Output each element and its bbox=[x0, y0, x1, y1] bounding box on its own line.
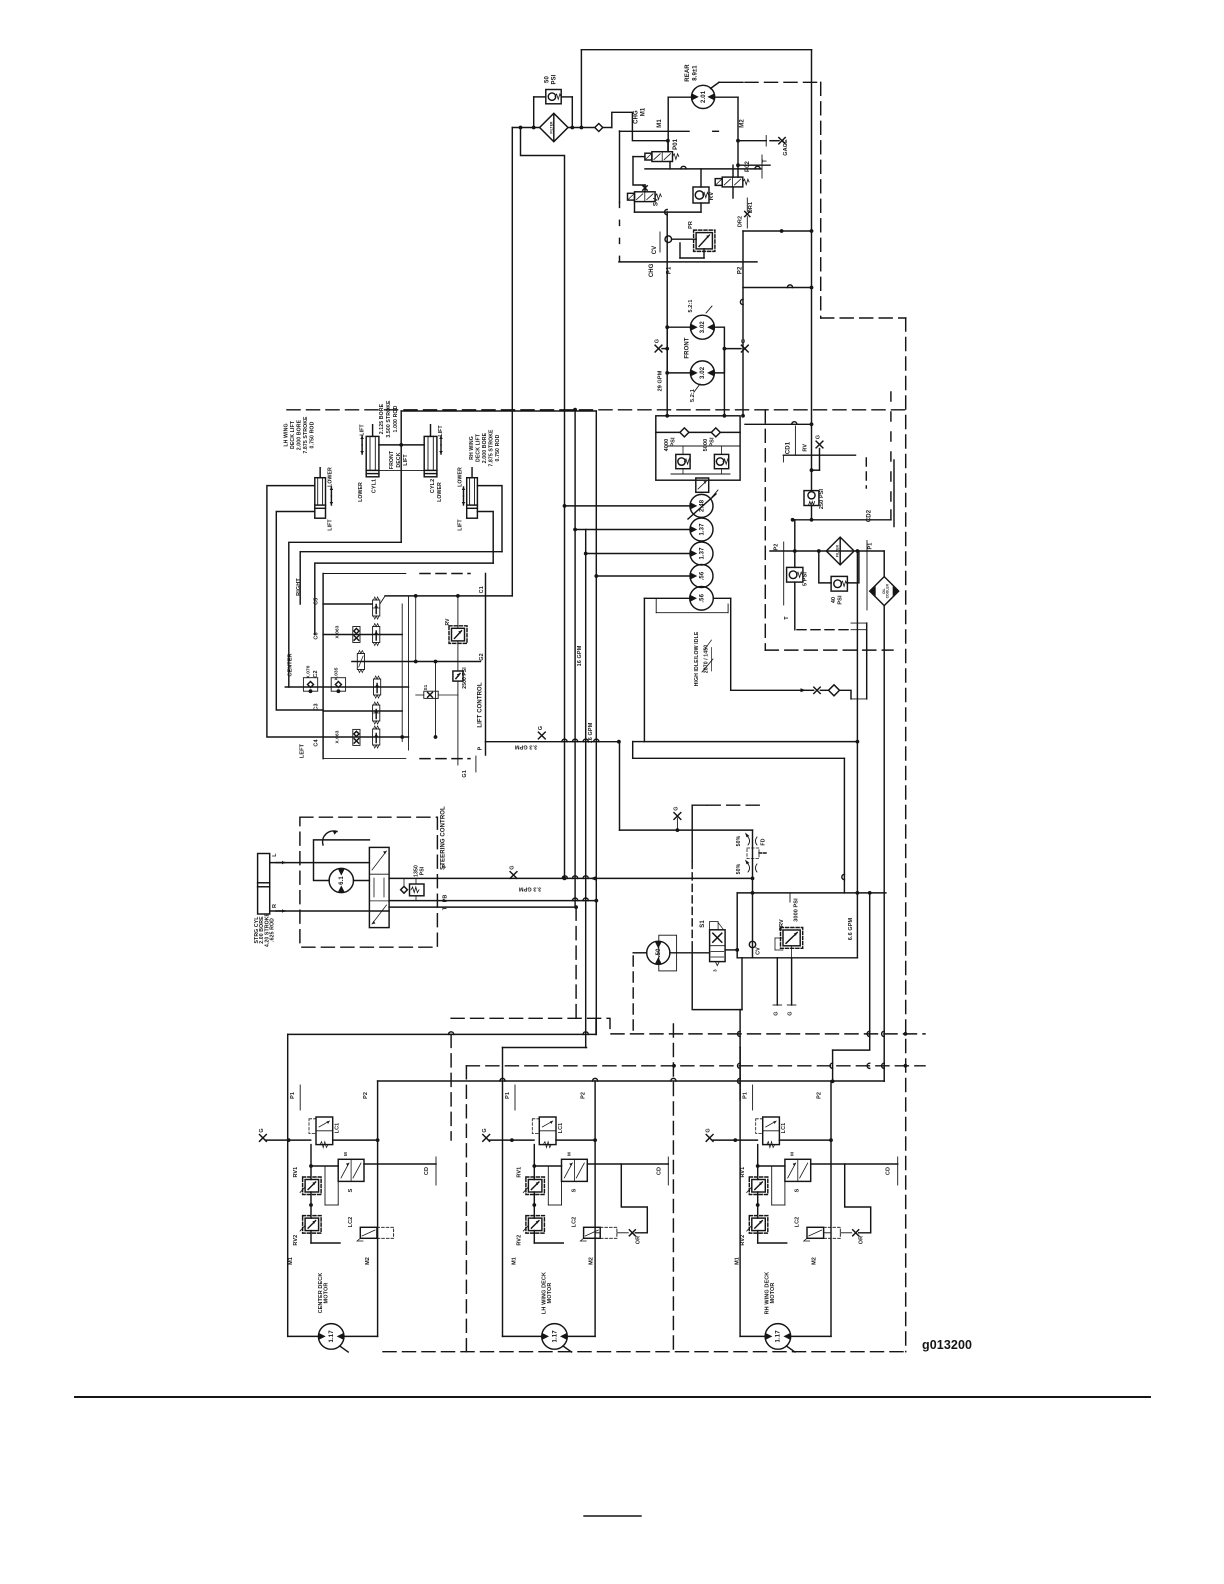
wire pump 1.37a output bbox=[575, 529, 690, 531]
svg-text:3.3 GPM: 3.3 GPM bbox=[514, 744, 537, 750]
svg-text:LIFT: LIFT bbox=[328, 519, 334, 531]
port T bracket bbox=[761, 155, 763, 178]
wire filter inlet bbox=[512, 127, 539, 129]
pump .56 lower bbox=[690, 587, 714, 611]
dashed bottom boundary bbox=[383, 1351, 906, 1353]
wire pump .56b left bbox=[644, 597, 690, 599]
wire CD RH WING DECK bbox=[811, 1163, 898, 1165]
gage test port bbox=[779, 138, 785, 144]
T bracket vertical bbox=[866, 623, 868, 699]
svg-text:PSI: PSI bbox=[420, 866, 426, 875]
3000 bracket tick bbox=[789, 893, 791, 902]
lift valve S2 bbox=[373, 729, 380, 745]
wire branch to right rail bbox=[743, 230, 812, 232]
wire P1 line down bbox=[619, 131, 621, 202]
valve P01 bbox=[652, 152, 673, 162]
relief RV2 RH WING DECK bbox=[752, 1218, 766, 1231]
motor 1.17 LH WING DECK bbox=[542, 1324, 568, 1350]
wire rail to CO2 line bbox=[811, 506, 813, 520]
svg-text:C5: C5 bbox=[314, 598, 320, 605]
svg-text:P2: P2 bbox=[774, 544, 780, 551]
steering valve bbox=[369, 847, 389, 927]
wire 40 PSI bypass right bbox=[847, 551, 859, 583]
svg-text:P1: P1 bbox=[868, 543, 874, 550]
dashed main right border bbox=[905, 318, 907, 1352]
dashed enclosure right upper bbox=[820, 82, 822, 318]
test port G steering P bbox=[510, 872, 517, 879]
svg-text:STEERING CONTROL: STEERING CONTROL bbox=[441, 806, 447, 870]
wire valve column RH WING DECK bbox=[757, 1145, 759, 1180]
wire G line LH WING DECK bbox=[490, 1139, 534, 1141]
svg-text:CENTER: CENTER bbox=[288, 653, 294, 676]
orifice OR LH WING DECK bbox=[629, 1230, 635, 1236]
svg-text:M1: M1 bbox=[641, 107, 647, 116]
svg-text:LIFT: LIFT bbox=[403, 454, 409, 466]
manifold boundary line bbox=[619, 261, 757, 263]
wire RH P2 riser bbox=[833, 893, 870, 1050]
lift block bottom line bbox=[323, 758, 406, 760]
svg-text:PSI: PSI bbox=[552, 74, 558, 84]
svg-text:MOTOR: MOTOR bbox=[770, 1283, 776, 1304]
wire M1 line bbox=[620, 130, 690, 132]
wire lift P down bbox=[619, 742, 621, 830]
svg-text:T: T bbox=[784, 616, 790, 620]
svg-text:LOWER: LOWER bbox=[358, 482, 364, 502]
svg-text:M1: M1 bbox=[657, 119, 663, 128]
svg-text:2.000 BORE: 2.000 BORE bbox=[482, 432, 488, 463]
svg-text:0.750 ROD: 0.750 ROD bbox=[310, 421, 316, 448]
svg-text:CV: CV bbox=[756, 947, 762, 955]
wire front cyl riser bbox=[400, 411, 402, 445]
motor 1.17 CENTER DECK bbox=[318, 1324, 344, 1350]
wire M1 vertical bbox=[667, 97, 669, 152]
check valve idle bbox=[829, 685, 840, 696]
wire riser down bbox=[832, 1050, 834, 1081]
wire CD2 corner bbox=[890, 510, 892, 520]
dashed jog bbox=[821, 317, 906, 319]
wire CD2 line bbox=[793, 519, 891, 521]
lift relief RV bbox=[452, 628, 465, 641]
svg-text:X.035: X.035 bbox=[334, 667, 340, 680]
svg-text:S: S bbox=[571, 1188, 577, 1192]
svg-text:1.000 ROD: 1.000 ROD bbox=[393, 405, 399, 432]
svg-text:1.17: 1.17 bbox=[329, 1330, 335, 1343]
svg-text:LC2: LC2 bbox=[795, 1217, 801, 1228]
dashed T drain bbox=[797, 629, 851, 631]
orifice capsule C6 bbox=[353, 627, 360, 643]
svg-text:PR: PR bbox=[688, 221, 694, 229]
wire RH cyl port B bbox=[477, 512, 493, 564]
pump .56 upper bbox=[690, 565, 713, 588]
svg-text:.625 ROD: .625 ROD bbox=[270, 918, 276, 942]
svg-text:G1: G1 bbox=[462, 770, 468, 778]
svg-text:G: G bbox=[788, 1011, 794, 1015]
dashed divider LH-RH bbox=[672, 1024, 674, 1352]
svg-text:G: G bbox=[510, 865, 516, 869]
wire C3 bbox=[323, 710, 402, 712]
lift valve S7 bbox=[373, 627, 380, 643]
svg-text:3.02: 3.02 bbox=[700, 366, 706, 379]
wire filter outlet bbox=[568, 127, 595, 129]
wire lift P line 3.3 GPM bbox=[486, 741, 619, 743]
relief RV1 RH WING DECK bbox=[752, 1180, 766, 1193]
valve LC2 RH WING DECK bbox=[807, 1227, 824, 1238]
test port G CENTER DECK bbox=[260, 1135, 267, 1142]
wire P2 line LH WING DECK bbox=[594, 1081, 596, 1336]
valve SV bbox=[635, 192, 656, 202]
wire P1 to oil cooler bbox=[883, 551, 885, 577]
svg-text:HIGH IDLE/LOW IDLE: HIGH IDLE/LOW IDLE bbox=[694, 631, 700, 686]
cylinder CYL2 front deck bbox=[424, 436, 437, 476]
front wheel motor lower 3.02 bbox=[690, 361, 714, 385]
S1 block left bbox=[736, 893, 738, 958]
svg-text:1.37: 1.37 bbox=[699, 547, 705, 560]
dashed manifold boundary bbox=[451, 1018, 925, 1034]
svg-text:M1: M1 bbox=[288, 1257, 294, 1265]
svg-text:G: G bbox=[655, 339, 661, 343]
check valve inline bbox=[595, 124, 603, 132]
wire lift rail c bbox=[415, 596, 417, 662]
relief valve 4000 PSI bbox=[676, 454, 690, 468]
svg-text:CHG: CHG bbox=[634, 110, 640, 124]
svg-text:5 PSI: 5 PSI bbox=[803, 572, 809, 586]
wire drain rail bbox=[645, 168, 738, 170]
wire pressure rail bbox=[457, 596, 459, 628]
svg-text:G: G bbox=[482, 1128, 488, 1132]
svg-text:6.6 GPM: 6.6 GPM bbox=[848, 917, 854, 940]
wire P1 line RH WING DECK bbox=[739, 1048, 741, 1337]
svg-text:M: M bbox=[343, 1152, 348, 1156]
svg-text:1.17: 1.17 bbox=[776, 1330, 782, 1343]
svg-text:RV2: RV2 bbox=[740, 1235, 746, 1246]
svg-text:.56: .56 bbox=[699, 571, 705, 580]
svg-text:PSI: PSI bbox=[838, 595, 844, 605]
svg-text:M2: M2 bbox=[588, 1257, 594, 1265]
svg-text:FRONT: FRONT bbox=[685, 337, 691, 358]
svg-text:LC2: LC2 bbox=[571, 1217, 577, 1228]
port bracket CD1 bbox=[794, 426, 796, 455]
svg-text:L: L bbox=[272, 853, 278, 857]
svg-text:P02: P02 bbox=[745, 160, 751, 172]
steering dashed enclosure bbox=[300, 817, 438, 947]
wire OR loop RH WING DECK bbox=[845, 1164, 871, 1233]
test port G front left bbox=[655, 345, 662, 352]
dashed P1 drain bbox=[619, 202, 621, 262]
dashed tank line from T bbox=[575, 907, 577, 1018]
wire to S valve LH WING DECK bbox=[534, 1165, 561, 1167]
svg-text:M2: M2 bbox=[740, 119, 746, 128]
svg-text:MOTOR: MOTOR bbox=[324, 1283, 330, 1304]
relief 2500 PSI bbox=[453, 671, 463, 681]
svg-text:40: 40 bbox=[831, 597, 837, 603]
wire bypass right bbox=[561, 96, 572, 98]
svg-text:50%: 50% bbox=[736, 835, 742, 846]
dashed pilot to enclosure bbox=[707, 804, 765, 806]
cylinder RH wing deck lift bbox=[467, 478, 478, 519]
valve LC1 LH WING DECK bbox=[539, 1117, 556, 1145]
steering wheel arc bbox=[333, 831, 337, 835]
wire .56 loop bbox=[655, 598, 657, 612]
wire valve column CENTER DECK bbox=[310, 1145, 312, 1180]
dashed charge pump suction bbox=[632, 956, 634, 1034]
S1 block bottom bbox=[737, 957, 857, 959]
tick motor CENTER DECK bbox=[340, 1346, 349, 1352]
wire G1 tick bbox=[475, 756, 477, 772]
check valve 5 PSI bbox=[787, 567, 803, 582]
svg-text:LC1: LC1 bbox=[781, 1123, 787, 1134]
tick motor RH WING DECK bbox=[786, 1346, 795, 1352]
wire branch 2 to right rail bbox=[743, 287, 812, 289]
lift valve S6 bbox=[357, 654, 364, 670]
wire front cyl tie lower bbox=[379, 469, 424, 471]
lift valve S4 bbox=[373, 705, 380, 721]
wire G stub bbox=[676, 818, 678, 830]
svg-text:50: 50 bbox=[545, 76, 551, 83]
svg-text:3.500 STROKE: 3.500 STROKE bbox=[386, 400, 392, 438]
svg-text:RH WING: RH WING bbox=[469, 436, 475, 460]
wire charge rail upper bbox=[856, 551, 858, 742]
svg-text:T: T bbox=[763, 159, 769, 163]
wire S1 top line bbox=[737, 892, 886, 894]
svg-text:C3: C3 bbox=[314, 703, 320, 710]
svg-text:16 GPM: 16 GPM bbox=[588, 722, 594, 743]
charge filter bbox=[540, 113, 568, 141]
wire C1 internal bbox=[385, 595, 512, 597]
valve S CENTER DECK bbox=[338, 1159, 364, 1181]
wire M1 to rear motor bbox=[668, 96, 691, 98]
cylinder LH wing deck lift bbox=[315, 478, 326, 519]
port bracket P2 bbox=[783, 542, 785, 605]
wire S1 drain line bbox=[694, 1009, 742, 1011]
svg-text:RV1: RV1 bbox=[293, 1167, 299, 1178]
wire gerotor loop bbox=[314, 840, 370, 881]
footer page number line bbox=[584, 1515, 641, 1517]
lift valve S5 bbox=[374, 679, 381, 695]
svg-text:6.1: 6.1 bbox=[339, 876, 345, 885]
wire steering L bbox=[270, 862, 370, 864]
wire .56b left drop bbox=[644, 598, 857, 741]
wire G2 bbox=[352, 661, 481, 663]
svg-text:FD: FD bbox=[761, 838, 767, 845]
wire P2 rail down bbox=[742, 231, 744, 416]
dashed S1 pilot bbox=[691, 861, 693, 950]
svg-text:DECK LIFT: DECK LIFT bbox=[290, 420, 296, 449]
wire pump 2.48 output bbox=[565, 505, 691, 507]
svg-text:RV: RV bbox=[709, 192, 715, 200]
svg-text:3.02: 3.02 bbox=[700, 321, 706, 334]
svg-text:P: P bbox=[477, 746, 483, 750]
relief valve 5000 PSI bbox=[714, 454, 728, 468]
svg-text:C2: C2 bbox=[313, 670, 319, 677]
svg-text:LOWER: LOWER bbox=[328, 467, 334, 487]
svg-text:CV: CV bbox=[652, 246, 658, 255]
wire lift rail a bbox=[401, 604, 403, 742]
svg-text:50%: 50% bbox=[736, 863, 742, 874]
wire center P1 to LH P2 bbox=[288, 1033, 596, 1035]
wire P2 return line bbox=[378, 1080, 885, 1082]
wire front motor left loop bbox=[667, 327, 690, 348]
svg-text:M2: M2 bbox=[812, 1257, 818, 1265]
svg-text:G: G bbox=[816, 435, 822, 439]
wire pump .56b right bbox=[713, 597, 730, 599]
svg-text:2.125 BORE: 2.125 BORE bbox=[379, 403, 385, 434]
wire front deck to C2 bbox=[289, 542, 401, 687]
wire 40 PSI bypass left bbox=[819, 551, 831, 583]
wire tick rear motor to dashed box bbox=[711, 82, 720, 88]
svg-text:X.070: X.070 bbox=[306, 665, 312, 678]
wire check to T bracket bbox=[840, 690, 852, 699]
wire CD LH WING DECK bbox=[587, 1163, 668, 1165]
svg-text:RV1: RV1 bbox=[740, 1167, 746, 1178]
wire to RV bbox=[700, 169, 702, 187]
wire branch 3 to right rail bbox=[745, 423, 812, 425]
wire front motor left rail bbox=[666, 212, 668, 416]
svg-text:S: S bbox=[795, 1188, 801, 1192]
svg-text:M1: M1 bbox=[511, 1257, 517, 1265]
wire P01 left bbox=[633, 156, 645, 158]
wire SV feed bbox=[644, 185, 646, 192]
svg-text:7.875 STROKE: 7.875 STROKE bbox=[303, 416, 309, 454]
S1 solenoid bbox=[710, 922, 719, 930]
valve LC2 CENTER DECK bbox=[360, 1227, 377, 1238]
wire front motor right loop bbox=[714, 327, 724, 348]
wire to S valve CENTER DECK bbox=[311, 1165, 338, 1167]
svg-text:LOWER: LOWER bbox=[437, 482, 443, 502]
svg-text:G: G bbox=[773, 1011, 779, 1015]
wire CD CENTER DECK bbox=[364, 1163, 436, 1165]
wire FD to S1 top bbox=[752, 878, 754, 893]
oil cooler bbox=[870, 577, 899, 606]
wire rail 4 bbox=[595, 411, 597, 1034]
svg-text:C4: C4 bbox=[314, 739, 320, 747]
lift valve S8 bbox=[373, 600, 380, 616]
cylinder CYL1 front deck bbox=[366, 436, 379, 476]
valve S RH WING DECK bbox=[785, 1159, 811, 1181]
relief RV1 LH WING DECK bbox=[528, 1180, 542, 1193]
svg-text:RV: RV bbox=[445, 618, 451, 626]
wire relief row bbox=[667, 445, 740, 447]
wire drop from top rail to filter line bbox=[580, 50, 582, 128]
wire drain riser bbox=[741, 958, 743, 1010]
svg-text:.50: .50 bbox=[656, 948, 662, 957]
svg-text:MOTOR: MOTOR bbox=[547, 1283, 553, 1304]
svg-text:P2: P2 bbox=[581, 1092, 587, 1099]
svg-text:X.063: X.063 bbox=[334, 625, 340, 638]
svg-text:CYL2: CYL2 bbox=[430, 479, 436, 493]
dashed CD2 bracket bbox=[890, 392, 892, 510]
wire P01 to drain rail bbox=[669, 162, 671, 169]
wire P2-P1 filter line bbox=[770, 550, 884, 552]
wire LH P1 feed bbox=[503, 1047, 587, 1049]
check valve 50 PSI bypass bbox=[546, 90, 561, 104]
test port G front right bbox=[741, 345, 748, 352]
wire C4 bbox=[323, 736, 408, 738]
variable orifice FD 50%/50% bbox=[752, 830, 754, 878]
check valve steering bbox=[401, 886, 408, 893]
wire CV branch bbox=[752, 893, 754, 958]
svg-text:LEFT: LEFT bbox=[299, 743, 305, 758]
lift block left bracket bbox=[322, 574, 324, 759]
wire SV out bbox=[634, 202, 636, 213]
svg-text:G: G bbox=[259, 1128, 265, 1132]
svg-text:SV: SV bbox=[654, 198, 660, 206]
wire distribution 758 bbox=[633, 757, 845, 759]
svg-text:29 GPM: 29 GPM bbox=[658, 370, 664, 391]
svg-text:.56: .56 bbox=[699, 593, 705, 602]
svg-text:OR: OR bbox=[635, 1236, 641, 1244]
wire RH P1 supply bbox=[739, 1010, 741, 1048]
wire G stub b bbox=[791, 958, 793, 1005]
svg-text:CD: CD bbox=[886, 1167, 892, 1175]
svg-text:C1: C1 bbox=[479, 586, 485, 593]
svg-text:3000 PSI: 3000 PSI bbox=[793, 898, 799, 922]
pilot dashed LC1 RH WING DECK bbox=[756, 1119, 763, 1134]
svg-text:CHG: CHG bbox=[649, 263, 655, 277]
svg-text:S1: S1 bbox=[700, 920, 706, 928]
svg-text:FRONT: FRONT bbox=[389, 450, 395, 469]
svg-text:LIFT CONTROL: LIFT CONTROL bbox=[477, 682, 483, 727]
pressure reducing valve PR bbox=[696, 233, 712, 249]
rear wheel motor 2.01 bbox=[692, 85, 715, 108]
svg-text:1.17: 1.17 bbox=[552, 1330, 558, 1343]
pump 2.48 bbox=[690, 494, 713, 517]
wire charge rail lower bbox=[856, 742, 858, 893]
wire P2 line CENTER DECK bbox=[377, 1081, 379, 1336]
test port G idle line bbox=[674, 813, 681, 820]
wire CO1 riser bbox=[893, 460, 895, 527]
svg-text:16 GPM: 16 GPM bbox=[577, 645, 583, 666]
wire G line RH WING DECK bbox=[713, 1139, 757, 1141]
wire rear motor to M2 bbox=[715, 96, 738, 98]
wire gerotor to valve bbox=[354, 880, 370, 882]
port bracket P1 bbox=[866, 540, 868, 610]
valve LC2 LH WING DECK bbox=[584, 1227, 601, 1238]
svg-text:7.875 STROKE: 7.875 STROKE bbox=[489, 429, 495, 467]
svg-text:LC2: LC2 bbox=[348, 1217, 354, 1228]
wire valve column LH WING DECK bbox=[533, 1145, 535, 1180]
wire steering R bbox=[270, 910, 389, 912]
svg-text:DR2: DR2 bbox=[738, 216, 744, 227]
wire rail 3 bbox=[585, 530, 587, 1048]
valve LC1 CENTER DECK bbox=[316, 1117, 333, 1145]
check valve 40 PSI bbox=[831, 576, 847, 591]
svg-text:R: R bbox=[272, 904, 278, 908]
wire 5 PSI down bbox=[794, 582, 796, 630]
wire to 5 PSI check bbox=[794, 520, 796, 568]
relief RV1 CENTER DECK bbox=[305, 1180, 319, 1193]
svg-text:CD1: CD1 bbox=[786, 441, 792, 454]
wire pump .56a output bbox=[596, 575, 690, 577]
wire M1 node to P01 bbox=[667, 141, 669, 152]
svg-text:S1: S1 bbox=[423, 684, 428, 690]
pilot box FD bbox=[747, 848, 759, 859]
svg-text:M: M bbox=[566, 1152, 571, 1156]
relief valve 250 PSI bbox=[804, 491, 819, 506]
relief RV2 CENTER DECK bbox=[305, 1218, 319, 1231]
svg-text:G: G bbox=[673, 806, 679, 810]
svg-text:G: G bbox=[706, 1128, 712, 1132]
svg-text:G2: G2 bbox=[479, 653, 485, 661]
svg-text:G: G bbox=[741, 339, 747, 343]
svg-text:RV: RV bbox=[802, 444, 808, 452]
svg-text:CD: CD bbox=[424, 1167, 430, 1175]
wire drop to S1 top bbox=[843, 758, 845, 893]
wire G line CENTER DECK bbox=[266, 1139, 310, 1141]
orifice block X.035 bbox=[331, 678, 345, 692]
svg-text:P01: P01 bbox=[673, 138, 679, 150]
svg-text:g013200: g013200 bbox=[922, 1338, 972, 1352]
svg-text:P2: P2 bbox=[817, 1092, 823, 1099]
